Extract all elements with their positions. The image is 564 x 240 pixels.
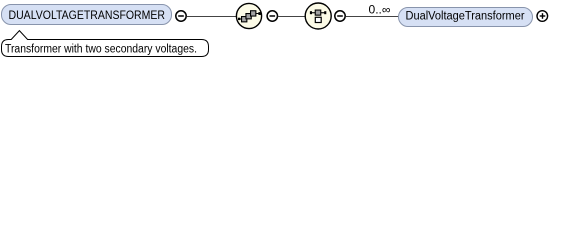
wire B <box>278 16 306 18</box>
group icon <box>310 10 326 24</box>
annotation callout box <box>2 31 209 57</box>
compositor circle 1 (sequence) <box>236 3 261 28</box>
svg-text:Transformer with two secondary: Transformer with two secondary voltages. <box>5 44 197 56</box>
compositor circle 2 (element group) <box>305 3 331 29</box>
svg-text:0..∞: 0..∞ <box>369 5 391 17</box>
svg-text:DualVoltageTransformer: DualVoltageTransformer <box>406 11 525 23</box>
element box DUALVOLTAGETRANSFORMER <box>2 5 172 25</box>
wire A <box>187 16 237 18</box>
collapse toggle 2 (minus) <box>267 11 277 21</box>
expand toggle (plus) <box>537 11 548 22</box>
wire C <box>346 16 399 18</box>
collapse toggle 1 (minus) <box>176 11 186 21</box>
collapse toggle 3 (minus) <box>335 11 345 21</box>
svg-text:DUALVOLTAGETRANSFORMER: DUALVOLTAGETRANSFORMER <box>9 10 166 22</box>
sequence icon <box>238 10 261 22</box>
element box DualVoltageTransformer <box>399 8 533 27</box>
